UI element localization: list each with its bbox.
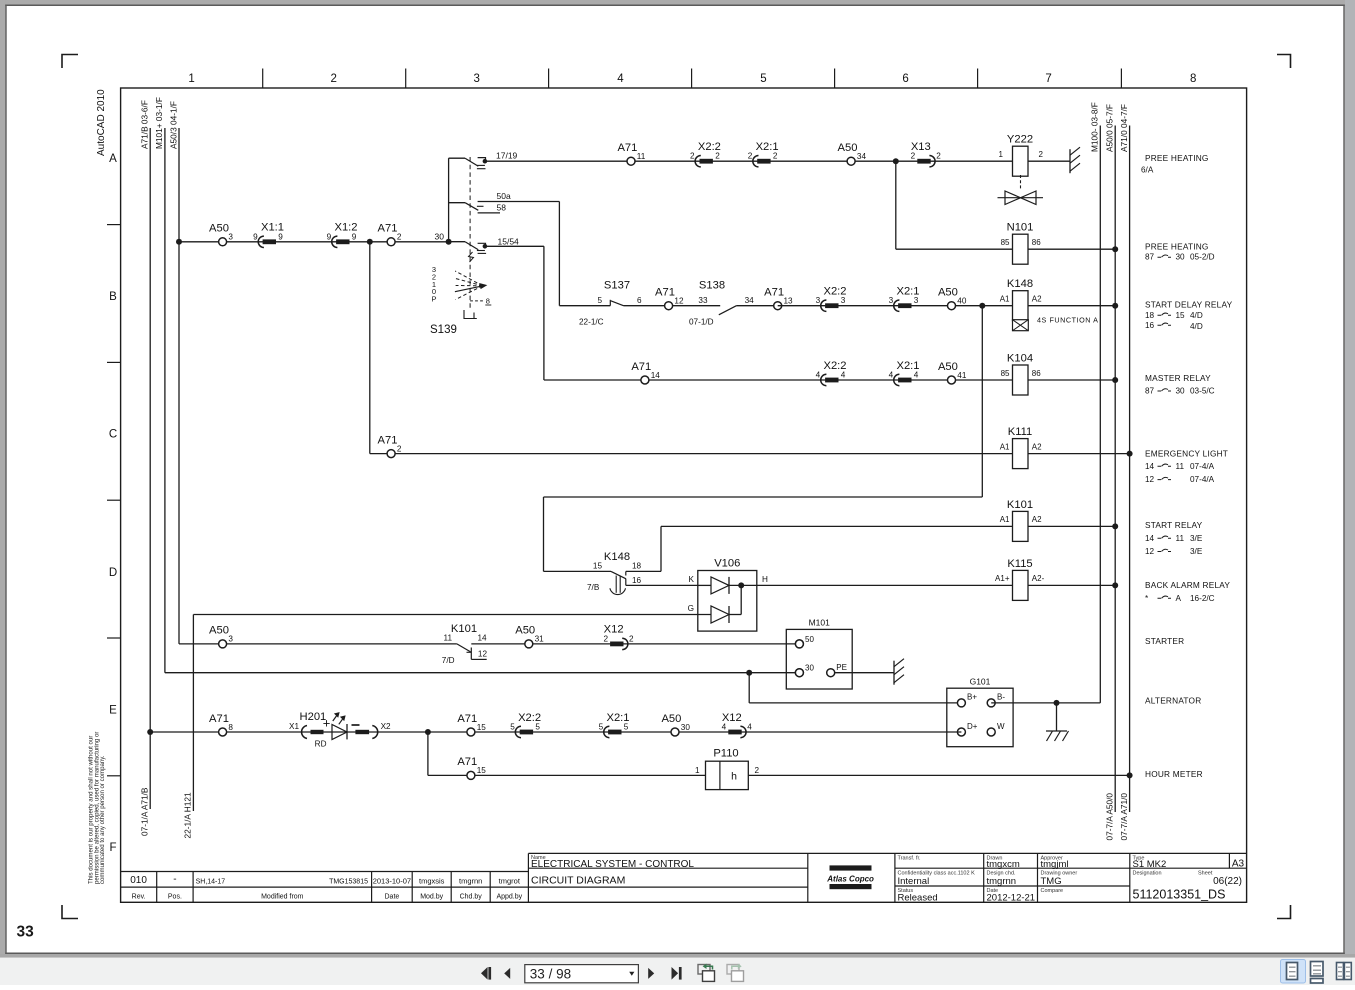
svg-text:5: 5 <box>624 723 629 732</box>
svg-text:RD: RD <box>315 739 327 748</box>
svg-text:communicated to any other pers: communicated to any other person or comp… <box>99 755 106 884</box>
svg-text:6: 6 <box>902 73 908 85</box>
svg-text:tmgrot: tmgrot <box>499 877 521 886</box>
svg-text:2: 2 <box>629 634 634 643</box>
svg-text:3: 3 <box>473 73 479 85</box>
svg-text:12: 12 <box>1145 475 1155 484</box>
svg-text:A2-: A2- <box>1032 574 1045 583</box>
svg-text:4: 4 <box>722 723 727 732</box>
svg-text:34: 34 <box>745 296 755 305</box>
svg-text:30: 30 <box>681 723 691 732</box>
svg-text:A71: A71 <box>655 287 675 299</box>
svg-text:30: 30 <box>1176 253 1186 262</box>
svg-text:Compare: Compare <box>1041 888 1064 894</box>
svg-text:4: 4 <box>889 371 894 380</box>
svg-text:K148: K148 <box>604 551 630 563</box>
svg-text:07-7/A A71/0: 07-7/A A71/0 <box>1119 793 1129 841</box>
svg-text:14: 14 <box>1145 462 1155 471</box>
svg-text:8: 8 <box>486 297 490 306</box>
svg-text:18: 18 <box>1145 311 1155 320</box>
svg-text:3: 3 <box>228 233 233 242</box>
svg-text:30: 30 <box>805 664 814 673</box>
svg-text:15: 15 <box>1176 311 1186 320</box>
svg-text:A1+: A1+ <box>995 574 1010 583</box>
svg-text:3: 3 <box>816 296 821 305</box>
svg-text:A71: A71 <box>764 287 784 299</box>
svg-text:A71: A71 <box>457 756 477 768</box>
svg-text:14: 14 <box>1145 534 1155 543</box>
svg-text:4: 4 <box>914 371 919 380</box>
svg-text:11: 11 <box>1176 534 1185 543</box>
svg-text:33 / 98: 33 / 98 <box>530 967 571 982</box>
svg-text:S137: S137 <box>604 279 630 291</box>
svg-text:9: 9 <box>352 232 357 241</box>
svg-text:Modified from: Modified from <box>261 893 304 900</box>
svg-text:B+: B+ <box>967 693 977 702</box>
svg-text:K115: K115 <box>1007 558 1032 570</box>
svg-text:A2: A2 <box>1032 295 1042 304</box>
svg-text:22-1/A H121: 22-1/A H121 <box>183 792 193 839</box>
svg-text:12: 12 <box>1145 547 1155 556</box>
svg-text:2: 2 <box>330 73 336 85</box>
svg-text:5112013351_DS: 5112013351_DS <box>1133 888 1226 902</box>
svg-text:2013-10-07: 2013-10-07 <box>373 877 411 886</box>
svg-text:15: 15 <box>593 562 603 571</box>
svg-text:K148: K148 <box>1007 278 1033 290</box>
svg-text:8: 8 <box>1190 73 1196 85</box>
svg-text:2: 2 <box>911 152 916 161</box>
svg-text:Rev.: Rev. <box>132 893 146 900</box>
svg-text:7: 7 <box>1045 73 1051 85</box>
svg-text:11: 11 <box>444 634 453 643</box>
svg-text:010: 010 <box>130 875 147 886</box>
svg-text:A50: A50 <box>209 223 229 235</box>
svg-text:B: B <box>109 291 117 303</box>
svg-text:86: 86 <box>1032 369 1041 378</box>
svg-text:9: 9 <box>278 232 283 241</box>
svg-text:K: K <box>689 575 695 584</box>
svg-text:Released: Released <box>898 893 938 904</box>
svg-text:B-: B- <box>997 693 1005 702</box>
svg-text:STARTER: STARTER <box>1145 636 1184 646</box>
svg-text:Chd.by: Chd.by <box>460 893 483 900</box>
svg-text:START DELAY RELAY: START DELAY RELAY <box>1145 300 1233 310</box>
svg-text:5: 5 <box>510 723 515 732</box>
svg-text:Designation: Designation <box>1133 870 1162 876</box>
svg-text:W: W <box>997 722 1005 731</box>
svg-text:17/19: 17/19 <box>496 151 518 161</box>
svg-text:13: 13 <box>784 297 794 306</box>
svg-text:G: G <box>688 604 694 613</box>
svg-text:2: 2 <box>690 152 695 161</box>
svg-text:-: - <box>173 874 176 885</box>
svg-text:2: 2 <box>397 444 402 453</box>
svg-text:A50/3 04-1/F: A50/3 04-1/F <box>169 101 179 149</box>
svg-text:Appd.by: Appd.by <box>496 893 522 900</box>
svg-text:06(22): 06(22) <box>1213 876 1242 887</box>
svg-text:12: 12 <box>674 297 684 306</box>
svg-text:86: 86 <box>1032 238 1041 247</box>
svg-text:03-5/C: 03-5/C <box>1190 387 1215 396</box>
svg-text:A50: A50 <box>938 361 958 373</box>
svg-text:18: 18 <box>632 562 642 571</box>
svg-text:C: C <box>109 429 117 441</box>
svg-text:D: D <box>109 567 117 579</box>
svg-text:30: 30 <box>435 232 445 242</box>
svg-text:K104: K104 <box>1007 353 1033 365</box>
svg-text:4S FUNCTION A: 4S FUNCTION A <box>1037 316 1098 325</box>
svg-text:Pos.: Pos. <box>168 893 182 900</box>
svg-text:5: 5 <box>599 723 604 732</box>
svg-text:07-1/A A71/B: 07-1/A A71/B <box>140 787 150 836</box>
svg-text:07-4/A: 07-4/A <box>1190 462 1215 471</box>
svg-text:87: 87 <box>1145 253 1155 262</box>
svg-text:5: 5 <box>760 73 766 85</box>
svg-text:M101+ 03-1/F: M101+ 03-1/F <box>154 97 164 149</box>
svg-text:TMG: TMG <box>1041 876 1062 887</box>
svg-text:33: 33 <box>17 924 35 941</box>
svg-text:9: 9 <box>253 232 258 241</box>
svg-text:K101: K101 <box>451 623 477 635</box>
svg-text:A1: A1 <box>1000 442 1010 451</box>
svg-text:Transf. fr.: Transf. fr. <box>898 855 921 861</box>
svg-text:TMG153815: TMG153815 <box>329 879 368 886</box>
svg-text:40: 40 <box>957 297 967 306</box>
svg-text:3/E: 3/E <box>1190 547 1203 556</box>
svg-text:A50: A50 <box>209 625 229 637</box>
svg-text:Internal: Internal <box>898 876 930 887</box>
svg-text:4/D: 4/D <box>1190 322 1203 331</box>
svg-text:5: 5 <box>535 723 540 732</box>
svg-text:A71: A71 <box>209 713 229 725</box>
svg-text:14: 14 <box>478 634 488 643</box>
svg-text:Sheet: Sheet <box>1198 870 1213 876</box>
svg-text:M101: M101 <box>809 617 831 627</box>
svg-text:tmgrnn: tmgrnn <box>987 876 1017 887</box>
svg-text:Mod.by: Mod.by <box>420 893 443 900</box>
svg-text:Y222: Y222 <box>1007 134 1033 146</box>
svg-text:41: 41 <box>957 371 967 380</box>
svg-text:3: 3 <box>889 296 894 305</box>
svg-text:2012-12-21: 2012-12-21 <box>987 893 1036 904</box>
svg-text:87: 87 <box>1145 387 1155 396</box>
svg-text:05-2/D: 05-2/D <box>1190 253 1215 262</box>
svg-text:1: 1 <box>695 766 700 775</box>
svg-text:A2: A2 <box>1032 515 1042 524</box>
svg-text:S138: S138 <box>699 279 725 291</box>
svg-text:2: 2 <box>603 634 608 643</box>
svg-text:15/54: 15/54 <box>498 237 520 247</box>
svg-text:X1: X1 <box>289 722 299 731</box>
svg-text:3: 3 <box>228 635 233 644</box>
svg-text:G101: G101 <box>970 676 991 686</box>
svg-text:EMERGENCY LIGHT: EMERGENCY LIGHT <box>1145 448 1228 458</box>
svg-text:A50: A50 <box>515 625 535 637</box>
svg-text:PE: PE <box>836 663 847 672</box>
svg-text:ALTERNATOR: ALTERNATOR <box>1145 696 1201 706</box>
svg-text:4: 4 <box>617 73 624 85</box>
svg-text:tmgrnn: tmgrnn <box>459 877 482 886</box>
svg-text:1: 1 <box>999 150 1004 159</box>
svg-text:A71/B 03-6/F: A71/B 03-6/F <box>140 100 150 149</box>
svg-text:34: 34 <box>857 152 867 161</box>
svg-text:30: 30 <box>1176 387 1186 396</box>
svg-text:tmgxsis: tmgxsis <box>419 877 445 886</box>
svg-text:A71: A71 <box>617 142 637 154</box>
svg-text:S1 MK2: S1 MK2 <box>1133 859 1167 870</box>
svg-text:3: 3 <box>914 296 919 305</box>
svg-text:AutoCAD 2010: AutoCAD 2010 <box>96 89 107 156</box>
svg-text:15: 15 <box>477 766 487 775</box>
svg-text:A50: A50 <box>661 713 681 725</box>
svg-text:F: F <box>109 842 116 854</box>
svg-text:A71: A71 <box>378 434 398 446</box>
svg-text:HOUR METER: HOUR METER <box>1145 769 1203 779</box>
svg-text:CIRCUIT DIAGRAM: CIRCUIT DIAGRAM <box>531 875 625 887</box>
svg-text:START RELAY: START RELAY <box>1145 520 1203 530</box>
svg-text:2: 2 <box>1039 150 1044 159</box>
svg-text:2: 2 <box>715 152 720 161</box>
svg-text:MASTER RELAY: MASTER RELAY <box>1145 373 1211 383</box>
svg-text:D+: D+ <box>967 722 978 731</box>
svg-text:A50/0 05-7/F: A50/0 05-7/F <box>1104 104 1114 152</box>
svg-text:1: 1 <box>188 73 194 85</box>
svg-text:16-2/C: 16-2/C <box>1190 594 1215 603</box>
svg-text:P110: P110 <box>713 748 738 760</box>
svg-text:2: 2 <box>755 766 760 775</box>
svg-text:h: h <box>731 771 737 783</box>
svg-text:11: 11 <box>637 152 646 161</box>
svg-text:16: 16 <box>1145 321 1155 330</box>
svg-text:tmgxcm: tmgxcm <box>987 859 1020 870</box>
svg-text:A1: A1 <box>1000 515 1010 524</box>
svg-text:P: P <box>431 295 436 304</box>
svg-text:2: 2 <box>397 233 402 242</box>
svg-text:58: 58 <box>497 203 507 213</box>
svg-text:4/D: 4/D <box>1190 311 1203 320</box>
svg-text:4: 4 <box>747 723 752 732</box>
svg-text:X2: X2 <box>381 722 391 731</box>
svg-text:A: A <box>109 153 117 165</box>
svg-text:6/A: 6/A <box>1141 165 1154 174</box>
svg-text:E: E <box>109 705 117 717</box>
svg-text:50: 50 <box>805 635 814 644</box>
svg-text:2: 2 <box>773 152 778 161</box>
svg-text:K111: K111 <box>1008 426 1032 438</box>
svg-text:85: 85 <box>1001 238 1010 247</box>
svg-text:ELECTRICAL SYSTEM - CONTROL: ELECTRICAL SYSTEM - CONTROL <box>531 859 694 870</box>
svg-text:tmgjml: tmgjml <box>1041 859 1069 870</box>
svg-text:33: 33 <box>698 296 708 305</box>
svg-text:A1: A1 <box>1000 295 1010 304</box>
svg-text:A3: A3 <box>1232 858 1245 869</box>
svg-text:14: 14 <box>651 371 661 380</box>
svg-text:A71: A71 <box>378 223 398 235</box>
svg-text:12: 12 <box>478 650 488 659</box>
svg-text:H: H <box>762 575 768 584</box>
svg-text:A71: A71 <box>631 361 651 373</box>
svg-text:15: 15 <box>477 723 487 732</box>
svg-text:3/E: 3/E <box>1190 534 1203 543</box>
svg-text:50a: 50a <box>497 191 511 201</box>
svg-text:A: A <box>1176 594 1182 603</box>
svg-text:SH,14-17: SH,14-17 <box>196 879 226 886</box>
svg-text:2: 2 <box>748 152 753 161</box>
svg-text:A71/0 04-7/F: A71/0 04-7/F <box>1119 104 1129 152</box>
svg-text:22-1/C: 22-1/C <box>579 318 604 327</box>
svg-text:A50: A50 <box>838 142 858 154</box>
svg-text:S139: S139 <box>430 324 457 336</box>
svg-text:6: 6 <box>637 296 642 305</box>
svg-text:PREE HEATING: PREE HEATING <box>1145 153 1209 163</box>
svg-text:16: 16 <box>632 576 642 585</box>
svg-text:Date: Date <box>385 893 400 900</box>
svg-text:7/D: 7/D <box>442 656 455 665</box>
svg-text:K101: K101 <box>1007 499 1033 511</box>
svg-text:+: + <box>323 716 331 731</box>
svg-text:9: 9 <box>327 232 332 241</box>
svg-text:A71: A71 <box>457 713 477 725</box>
svg-text:8: 8 <box>228 723 233 732</box>
svg-text:V106: V106 <box>714 558 740 570</box>
svg-text:4: 4 <box>816 371 821 380</box>
svg-text:2: 2 <box>936 152 941 161</box>
svg-text:3: 3 <box>841 296 846 305</box>
svg-text:31: 31 <box>535 635 545 644</box>
svg-text:11: 11 <box>1176 462 1185 471</box>
svg-text:A50: A50 <box>938 287 958 299</box>
svg-text:7/B: 7/B <box>587 583 600 592</box>
svg-text:M100- 03-8/F: M100- 03-8/F <box>1090 102 1100 152</box>
svg-text:5: 5 <box>597 296 602 305</box>
svg-text:85: 85 <box>1001 369 1010 378</box>
svg-text:PREE HEATING: PREE HEATING <box>1145 242 1209 252</box>
svg-text:A2: A2 <box>1032 442 1042 451</box>
svg-text:07-4/A: 07-4/A <box>1190 475 1215 484</box>
svg-text:BACK ALARM RELAY: BACK ALARM RELAY <box>1145 580 1230 590</box>
svg-text:07-1/D: 07-1/D <box>689 318 714 327</box>
svg-text:Atlas Copco: Atlas Copco <box>826 875 874 884</box>
svg-text:07-7/A A50/0: 07-7/A A50/0 <box>1104 793 1114 841</box>
svg-text:N101: N101 <box>1007 222 1034 234</box>
svg-text:4: 4 <box>841 371 846 380</box>
